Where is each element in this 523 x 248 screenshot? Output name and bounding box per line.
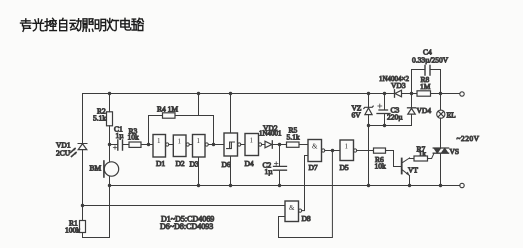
svg-text:D8: D8 bbox=[302, 214, 311, 223]
声 bbox=[21, 19, 32, 32]
路 bbox=[132, 18, 144, 30]
node: C2 ground junction bbox=[278, 184, 281, 187]
terminal bottom right bbox=[460, 183, 464, 187]
wire D3 bottom to ground bbox=[198, 157, 200, 186]
node: VS ground junction bbox=[439, 184, 442, 187]
photodiode VD1 bbox=[71, 144, 88, 157]
node: D6 ground junction bbox=[229, 184, 232, 187]
wire: rail tap to R4 line bbox=[198, 94, 200, 116]
resistor R6 bbox=[374, 148, 401, 167]
svg-text:1: 1 bbox=[178, 138, 182, 146]
照 bbox=[83, 19, 93, 32]
nand gate D8 bbox=[285, 201, 305, 222]
svg-text:1M: 1M bbox=[420, 82, 431, 91]
自 bbox=[60, 18, 67, 30]
resistor R5 bbox=[287, 142, 309, 147]
inverter D2 bbox=[173, 135, 192, 157]
wire D7 lower input from D8 output bbox=[305, 156, 309, 211]
svg-text:D7: D7 bbox=[309, 163, 318, 172]
明 bbox=[95, 19, 105, 31]
wire D6 top to rail bbox=[230, 94, 232, 134]
diode VD2 bbox=[265, 141, 287, 148]
node D3 output bbox=[212, 143, 215, 146]
top rail (VCC line y=94) bbox=[83, 93, 461, 95]
capacitor C3 bbox=[377, 94, 390, 126]
svg-text:D2: D2 bbox=[176, 159, 185, 168]
node: VZ ground rail junction bbox=[367, 184, 370, 187]
svg-text:0.33µ/250V: 0.33µ/250V bbox=[412, 56, 449, 65]
node: VD3/R8/C4/VD4 junction bbox=[410, 92, 413, 95]
svg-text:1µ: 1µ bbox=[265, 167, 274, 176]
svg-text:D6~D8:CD4093: D6~D8:CD4093 bbox=[160, 222, 213, 231]
zener VZ bbox=[364, 94, 373, 186]
node: junction VD1/R1 to D8 line bbox=[81, 204, 84, 207]
resistor R3 bbox=[129, 142, 153, 147]
node: C3 top rail junction bbox=[383, 92, 386, 95]
microphone BM bbox=[104, 145, 119, 186]
node: VD2/C2/R5 junction bbox=[278, 143, 281, 146]
left vertical wire x=82 bbox=[82, 94, 84, 238]
capacitor C1 bbox=[110, 140, 130, 150]
svg-text:&: & bbox=[289, 204, 295, 212]
node: D3 ground junction bbox=[197, 184, 200, 187]
diode VD3 bbox=[395, 90, 402, 97]
inverter D3 bbox=[193, 135, 225, 158]
node D7 out / D5 in bbox=[331, 149, 334, 152]
node: VZ top rail junction bbox=[367, 92, 370, 95]
svg-text:VD3: VD3 bbox=[391, 81, 406, 90]
svg-text:1k: 1k bbox=[419, 149, 427, 158]
nand gate D7 bbox=[308, 140, 340, 162]
svg-text:220µ: 220µ bbox=[387, 113, 403, 122]
svg-text:5.1k: 5.1k bbox=[287, 133, 300, 142]
svg-text:R4 1M: R4 1M bbox=[157, 105, 178, 114]
灯 bbox=[107, 19, 118, 31]
wire D8 feedback loop bbox=[279, 150, 333, 237]
svg-text:D4: D4 bbox=[245, 159, 254, 168]
inverter D5 bbox=[340, 140, 374, 161]
capacitor C4 bbox=[412, 66, 441, 94]
动 bbox=[70, 19, 81, 31]
node: R8/C4/EL junction bbox=[439, 92, 442, 95]
node: VZ/C3/VD4 ground link junction bbox=[367, 124, 370, 127]
node: D6 top rail junction bbox=[229, 92, 232, 95]
svg-text:D6: D6 bbox=[222, 160, 231, 169]
node: rail tap junction bbox=[197, 92, 200, 95]
node: R2 / top rail junction bbox=[108, 92, 111, 95]
triac VS bbox=[428, 118, 449, 186]
svg-text:1: 1 bbox=[250, 137, 254, 145]
svg-text:VS: VS bbox=[450, 147, 460, 156]
svg-text:6V: 6V bbox=[352, 111, 362, 120]
resistor R2 bbox=[107, 94, 113, 145]
signal line to D8 (y=205.5) bbox=[83, 205, 286, 207]
svg-text:1: 1 bbox=[157, 137, 161, 145]
光 bbox=[33, 19, 44, 31]
lamp EL bbox=[437, 94, 445, 119]
控 bbox=[45, 18, 56, 30]
ground rail y=185.5 bbox=[110, 185, 461, 187]
node D1 input bbox=[147, 143, 150, 146]
resistor R7 bbox=[414, 156, 428, 161]
svg-text:~220V: ~220V bbox=[457, 134, 480, 143]
svg-text:D3: D3 bbox=[190, 160, 199, 169]
svg-text:VT: VT bbox=[408, 166, 418, 175]
svg-text:D5: D5 bbox=[340, 163, 349, 172]
svg-text:1N4001: 1N4001 bbox=[259, 130, 282, 138]
svg-text:100k: 100k bbox=[65, 226, 80, 235]
svg-text:&: & bbox=[312, 143, 318, 151]
svg-text:1: 1 bbox=[345, 143, 349, 151]
svg-text:VD4: VD4 bbox=[417, 106, 432, 115]
terminal top right bbox=[460, 92, 464, 96]
电 bbox=[121, 18, 131, 30]
node: VT emitter ground junction bbox=[408, 184, 411, 187]
svg-text:EL: EL bbox=[447, 111, 457, 120]
svg-text:10k: 10k bbox=[128, 133, 140, 142]
transistor VT bbox=[402, 158, 414, 186]
svg-text:D1: D1 bbox=[156, 159, 165, 168]
title 声光控自动照明灯电路 (hand-drawn strokes) bbox=[21, 18, 144, 31]
inverter D4 bbox=[245, 134, 265, 156]
svg-text:1µ: 1µ bbox=[116, 131, 125, 140]
bottom-left return wire bbox=[83, 186, 110, 238]
svg-text:10k: 10k bbox=[375, 162, 387, 171]
capacitor C2 bbox=[274, 145, 287, 186]
node: C3 ground link junction bbox=[383, 124, 386, 127]
inverter D1 bbox=[153, 135, 173, 158]
schmitt gate D6 bbox=[224, 133, 245, 156]
svg-text:2CU: 2CU bbox=[56, 149, 71, 158]
svg-text:1: 1 bbox=[197, 137, 201, 145]
resistor R8 + capacitor C4 parallel bbox=[417, 91, 431, 96]
diode VD4 bbox=[369, 94, 416, 126]
resistor R1 bbox=[80, 221, 86, 233]
resistor R4 feedback bbox=[149, 113, 214, 145]
wire D6 bottom to ground bbox=[230, 156, 232, 186]
svg-text:5.1k: 5.1k bbox=[93, 114, 106, 123]
node: R2/C1/BM junction bbox=[108, 143, 111, 146]
svg-text:BM: BM bbox=[90, 163, 102, 172]
node: BM / ground rail junction bbox=[108, 184, 111, 187]
